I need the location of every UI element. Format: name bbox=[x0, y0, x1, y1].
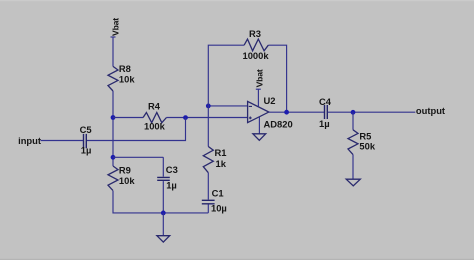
wire op-amp power stub bbox=[257, 89, 259, 106]
svg-text:50k: 50k bbox=[359, 141, 375, 152]
svg-text:100k: 100k bbox=[144, 121, 166, 132]
wire output line from op-amp to C4 bbox=[269, 111, 324, 113]
svg-text:C4: C4 bbox=[319, 96, 332, 107]
node junction at R5 top bbox=[351, 110, 356, 115]
wire op-amp ground stub bbox=[258, 117, 260, 134]
svg-text:Vbat: Vbat bbox=[111, 18, 121, 36]
wire R5 top lead bbox=[352, 112, 354, 130]
op-amp U2 bbox=[248, 95, 293, 129]
svg-text:1µ: 1µ bbox=[319, 118, 330, 129]
wire feedback loop left vertical and top bbox=[208, 45, 286, 112]
svg-text:10µ: 10µ bbox=[211, 203, 227, 214]
svg-text:1k: 1k bbox=[216, 158, 227, 169]
wire R4 right lead to op-amp plus input bbox=[167, 117, 248, 119]
capacitor C5 bbox=[80, 124, 92, 155]
node B junction bbox=[111, 155, 116, 160]
wire C1 bottom to ground line bbox=[207, 204, 209, 213]
wire input to C5 bbox=[41, 140, 84, 142]
svg-text:U2: U2 bbox=[264, 95, 276, 106]
wire inverting input line bbox=[208, 105, 247, 107]
svg-text:C1: C1 bbox=[212, 188, 224, 199]
wire C4 to output label bbox=[328, 111, 416, 113]
node Vbat (op-amp power flag) bbox=[254, 69, 264, 89]
wire R9 bottom to ground line bbox=[113, 191, 208, 213]
wire R4 left lead bbox=[113, 117, 143, 119]
node A junction bbox=[111, 115, 116, 120]
wire Vbat flag to R8 bbox=[112, 37, 114, 66]
resistor R1 bbox=[203, 147, 226, 173]
wire R1 bottom to C1 bbox=[207, 173, 209, 200]
svg-text:R9: R9 bbox=[119, 165, 131, 176]
svg-text:10k: 10k bbox=[119, 74, 135, 85]
capacitor C3 bbox=[157, 164, 178, 191]
wire C3 bottom to ground line bbox=[162, 181, 164, 213]
resistor R9 bbox=[108, 165, 135, 191]
svg-text:R3: R3 bbox=[249, 28, 261, 39]
wire stub to ground symbol bbox=[162, 213, 164, 236]
ground (R5) bbox=[346, 179, 360, 186]
svg-text:1µ: 1µ bbox=[166, 180, 177, 191]
svg-text:R4: R4 bbox=[148, 101, 161, 112]
svg-text:C5: C5 bbox=[80, 124, 92, 135]
svg-text:AD820: AD820 bbox=[264, 119, 293, 130]
resistor R5 bbox=[348, 130, 376, 155]
svg-text:1µ: 1µ bbox=[81, 144, 92, 155]
resistor R8 bbox=[108, 63, 135, 91]
junction on ground line bbox=[161, 211, 166, 216]
svg-text:R8: R8 bbox=[119, 63, 131, 74]
svg-text:Vbat: Vbat bbox=[254, 69, 264, 87]
ground (bottom center) bbox=[157, 236, 170, 242]
node inverting-input junction bbox=[206, 104, 211, 109]
svg-text:10k: 10k bbox=[119, 175, 135, 186]
capacitor C1 bbox=[202, 188, 227, 214]
svg-text:1000k: 1000k bbox=[243, 50, 270, 61]
node junction R4 right bbox=[183, 115, 188, 120]
wire node B to C3 bbox=[113, 157, 163, 176]
wire inverting node down to R1 bbox=[207, 106, 209, 147]
node Vbat (top-left power flag) bbox=[111, 18, 121, 37]
ground (op-amp) bbox=[253, 134, 266, 141]
svg-text:R1: R1 bbox=[215, 147, 227, 158]
resistor R3 bbox=[243, 28, 270, 61]
svg-text:input: input bbox=[18, 135, 41, 146]
resistor R4 bbox=[143, 101, 166, 132]
node output junction at feedback bbox=[284, 110, 289, 115]
svg-text:C3: C3 bbox=[166, 164, 178, 175]
capacitor C4 bbox=[319, 96, 332, 129]
wire R8 bottom through node A down to R9 bbox=[112, 91, 114, 166]
svg-text:output: output bbox=[416, 105, 445, 116]
wire R5 bottom to ground bbox=[352, 155, 354, 180]
wire from R4-right node down to input line level bbox=[87, 118, 186, 141]
